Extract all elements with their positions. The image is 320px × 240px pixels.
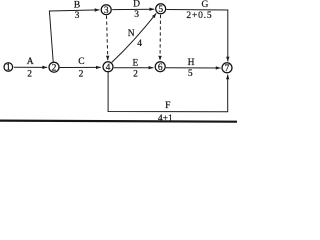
svg-text:4: 4: [106, 63, 111, 73]
svg-text:2: 2: [133, 70, 138, 80]
svg-text:D: D: [133, 0, 140, 10]
svg-text:G: G: [201, 0, 208, 10]
svg-text:H: H: [188, 58, 195, 68]
svg-text:4+1: 4+1: [158, 114, 173, 124]
svg-text:B: B: [74, 0, 80, 10]
svg-text:C: C: [78, 57, 84, 67]
svg-text:E: E: [132, 59, 138, 69]
svg-text:F: F: [165, 101, 170, 111]
svg-text:2: 2: [27, 70, 32, 80]
svg-text:3: 3: [104, 6, 109, 16]
svg-text:3: 3: [75, 11, 80, 21]
svg-text:2+0.5: 2+0.5: [186, 11, 212, 21]
svg-text:A: A: [27, 57, 34, 67]
svg-text:6: 6: [158, 63, 163, 73]
svg-text:N: N: [128, 29, 135, 39]
svg-text:7: 7: [225, 64, 230, 74]
svg-text:4: 4: [137, 39, 142, 49]
svg-text:1: 1: [6, 63, 11, 73]
svg-text:3: 3: [134, 10, 139, 20]
svg-text:5: 5: [158, 5, 163, 15]
svg-text:2: 2: [52, 63, 57, 73]
svg-text:5: 5: [188, 69, 193, 79]
svg-text:2: 2: [79, 70, 84, 80]
